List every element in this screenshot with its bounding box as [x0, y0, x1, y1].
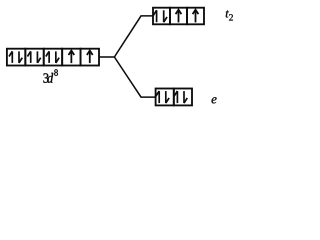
electron down arrow in t2 box 1 [164, 10, 167, 22]
electron down arrow in e box 1 [166, 91, 169, 103]
electron down arrow in 3d box 2 [37, 51, 40, 63]
electron down arrow in 3d box 3 [56, 51, 59, 63]
wire branch down to e level [114, 57, 155, 97]
orbital box t2 no.1 [153, 8, 170, 25]
electron up arrow in t2 box 3 [193, 10, 199, 23]
orbital box e no.2 [174, 89, 192, 106]
orbital box e no.1 [156, 89, 174, 106]
orbital box 3d no.1 [7, 49, 25, 66]
electron up arrow in e box 1 [156, 91, 159, 103]
orbital box t2 no.2 [170, 8, 187, 25]
electron up arrow in t2 box 2 [176, 10, 182, 23]
orbital box 3d no.2 [25, 49, 43, 66]
electron up arrow in 3d box 3 [46, 51, 49, 63]
electron down arrow in e box 2 [184, 91, 187, 103]
label t2 [226, 10, 233, 20]
electron down arrow in 3d box 1 [19, 51, 22, 63]
electron up arrow in 3d box 5 [87, 51, 93, 64]
orbital box 3d no.5 [81, 49, 99, 66]
wire from 3d level to junction [99, 56, 114, 58]
orbital box 3d no.3 [44, 49, 62, 66]
electron up arrow in 3d box 1 [9, 51, 12, 63]
label e [212, 97, 217, 103]
electron up arrow in t2 box 1 [153, 10, 156, 22]
orbital box 3d no.4 [62, 49, 80, 66]
electron up arrow in 3d box 4 [68, 51, 74, 64]
label 3d8 [43, 69, 58, 82]
wire branch up to t2 level [114, 16, 153, 57]
orbital box t2 no.3 [187, 8, 204, 25]
electron up arrow in 3d box 2 [27, 51, 30, 63]
electron up arrow in e box 2 [174, 91, 177, 103]
